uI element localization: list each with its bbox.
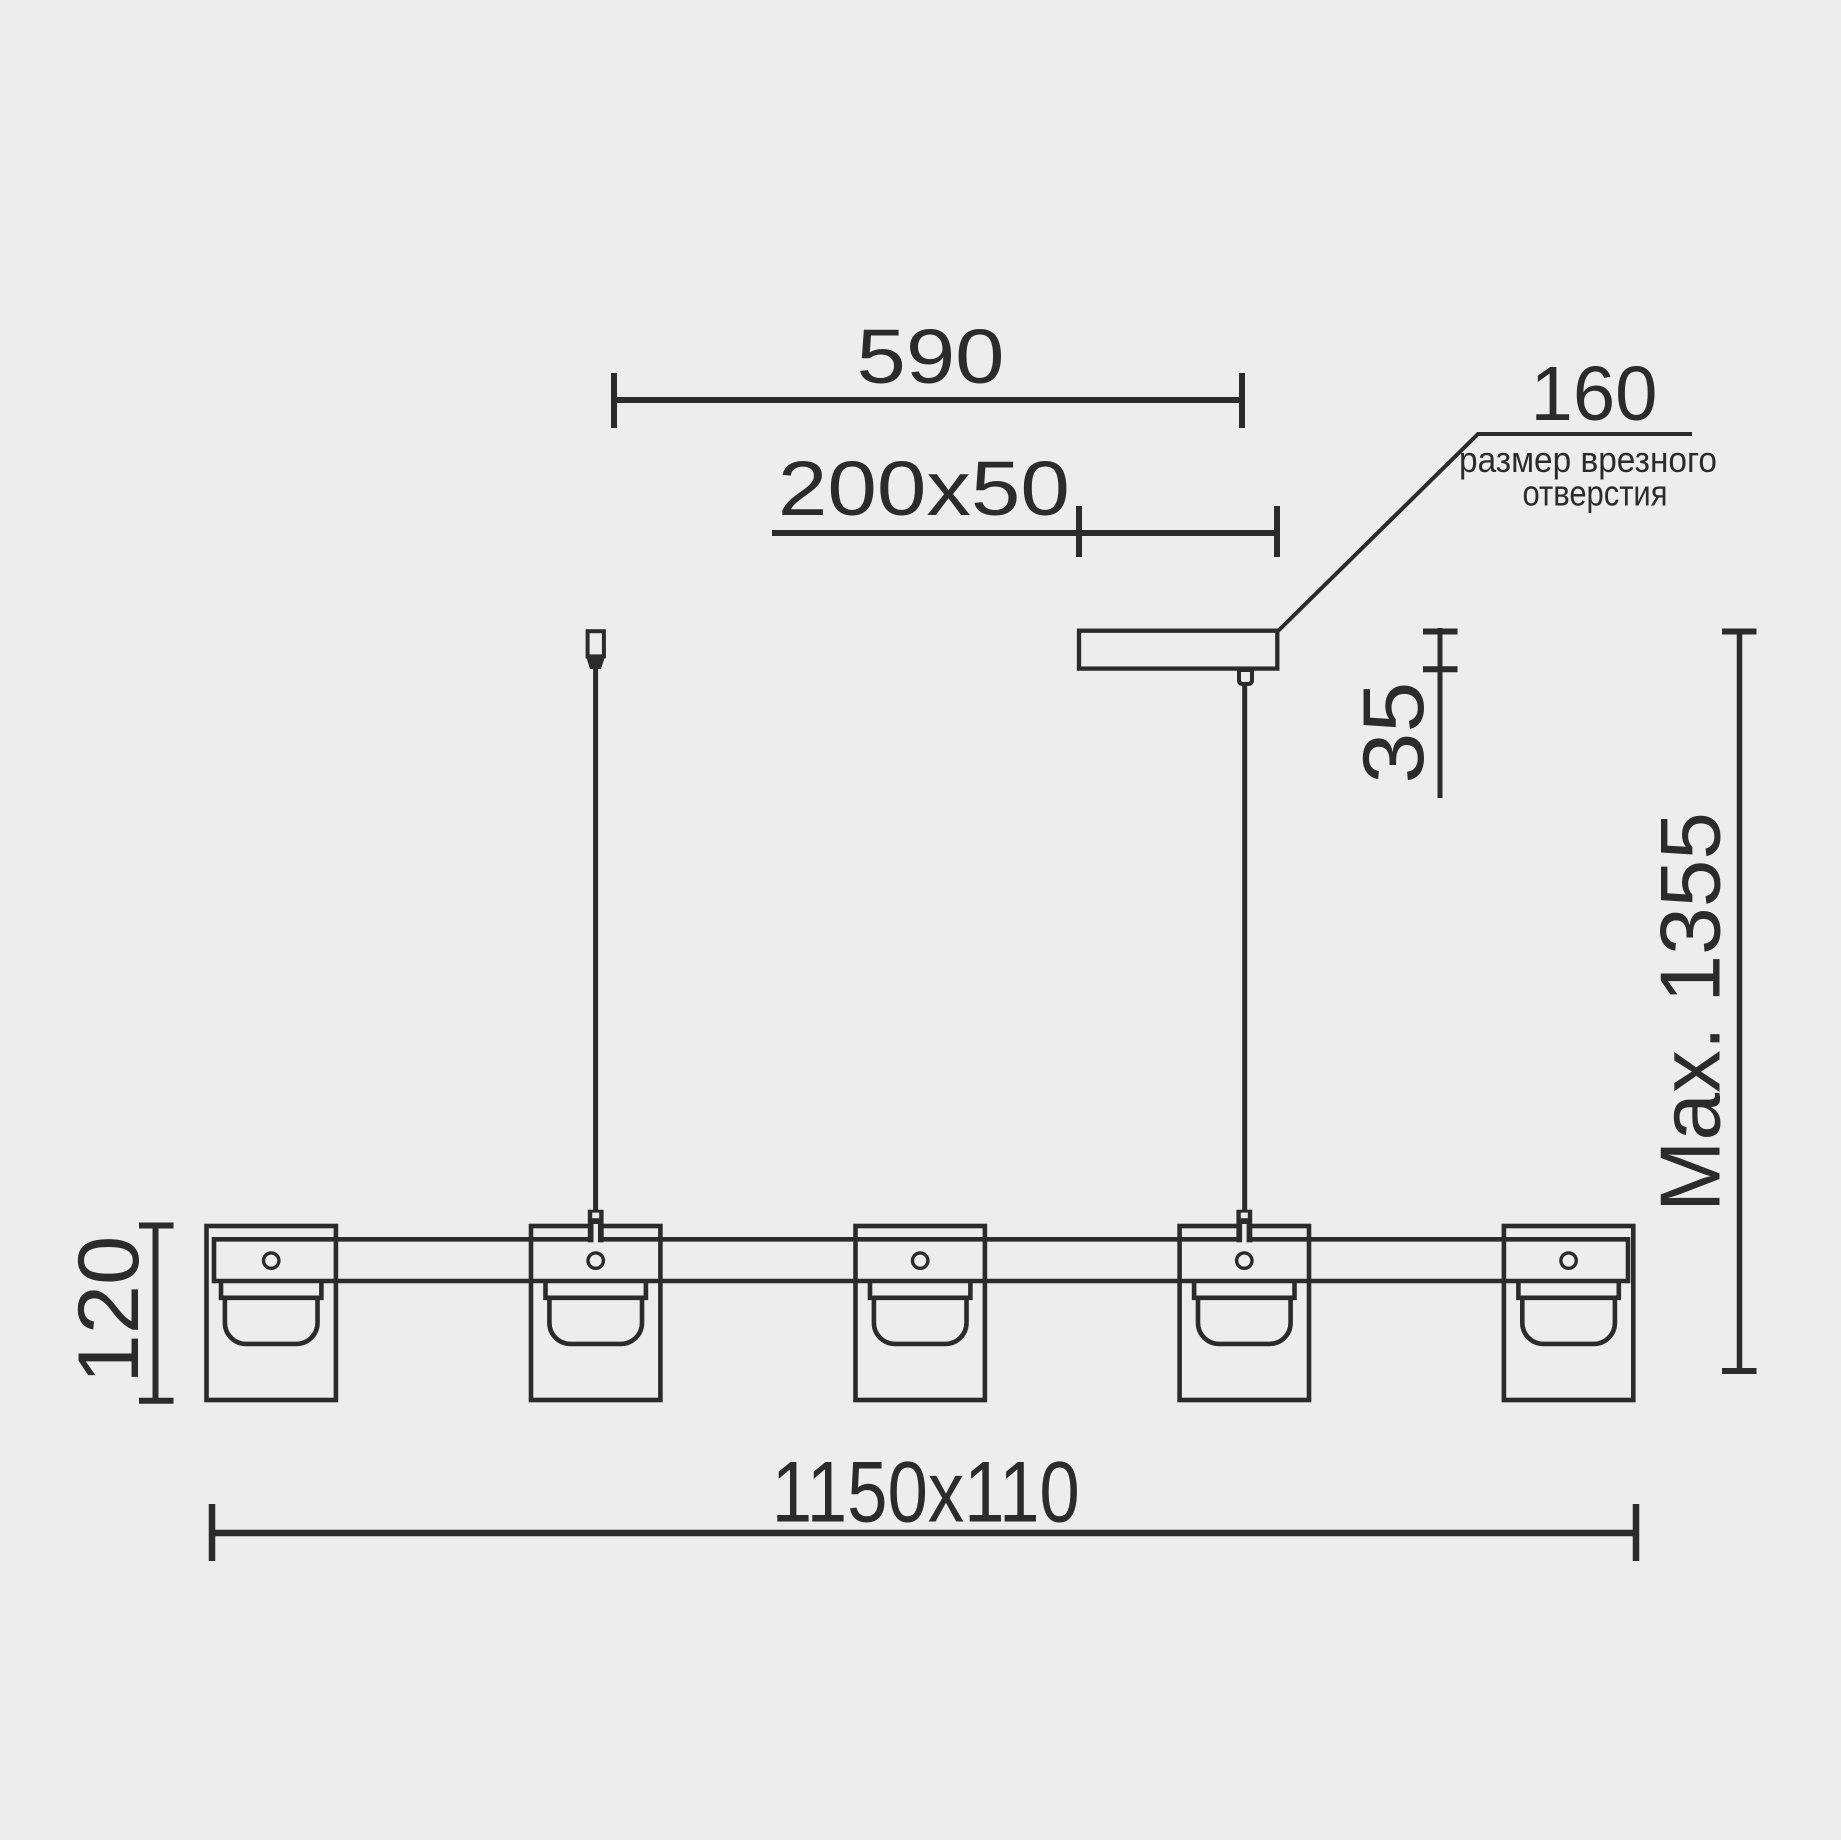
dimension 200x50 line xyxy=(772,506,1277,557)
cable 2 head fitting xyxy=(1236,1210,1252,1243)
ceiling canopy plate xyxy=(1079,631,1277,669)
svg-text:1150x110: 1150x110 xyxy=(772,1445,1080,1541)
suspension cable 2 xyxy=(1242,684,1247,1210)
dimension 120 line xyxy=(139,1226,174,1401)
cable 1 connector taper xyxy=(586,657,605,670)
cable 1 ceiling connector xyxy=(588,631,604,656)
lamp head 5 xyxy=(1504,1226,1633,1400)
leader line 160 xyxy=(1277,434,1693,633)
svg-text:отверстия: отверстия xyxy=(1523,473,1668,514)
dimension 35 line xyxy=(1423,628,1458,798)
svg-text:35: 35 xyxy=(1346,682,1442,784)
svg-text:120: 120 xyxy=(61,1236,157,1384)
svg-text:160: 160 xyxy=(1531,351,1658,437)
cable 1 head fitting xyxy=(588,1210,604,1243)
svg-text:Max. 1355: Max. 1355 xyxy=(1644,812,1739,1212)
lamp head 4 xyxy=(1180,1226,1309,1400)
dimension 590 line xyxy=(614,373,1242,428)
lamp bar rail xyxy=(214,1237,1628,1283)
dimension 1150x110 line xyxy=(212,1504,1636,1561)
svg-text:200x50: 200x50 xyxy=(778,446,1070,532)
canopy nipple xyxy=(1239,670,1252,684)
suspension cable 1 xyxy=(593,669,598,1210)
lamp head 1 xyxy=(207,1226,336,1400)
lamp head 3 xyxy=(856,1226,985,1400)
dimension Max. 1355 line xyxy=(1722,630,1757,1371)
svg-text:590: 590 xyxy=(857,314,1005,400)
lamp head 2 xyxy=(531,1226,660,1400)
